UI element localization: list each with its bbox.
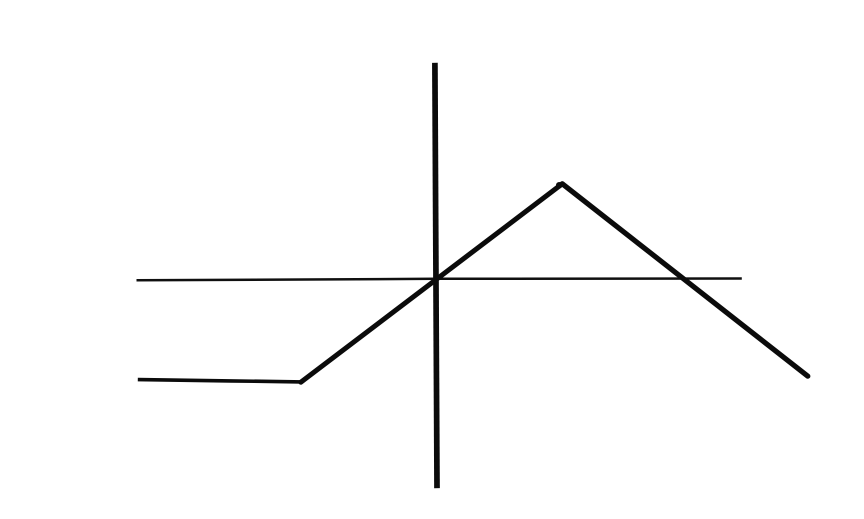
curve segment: left flat: [138, 380, 302, 382]
x-axis: [137, 279, 742, 281]
curve peak knob: [556, 182, 562, 188]
y-axis: [435, 63, 437, 488]
curve segment: rising diagonal: [301, 184, 563, 382]
curve segment: falling diagonal: [562, 184, 808, 376]
